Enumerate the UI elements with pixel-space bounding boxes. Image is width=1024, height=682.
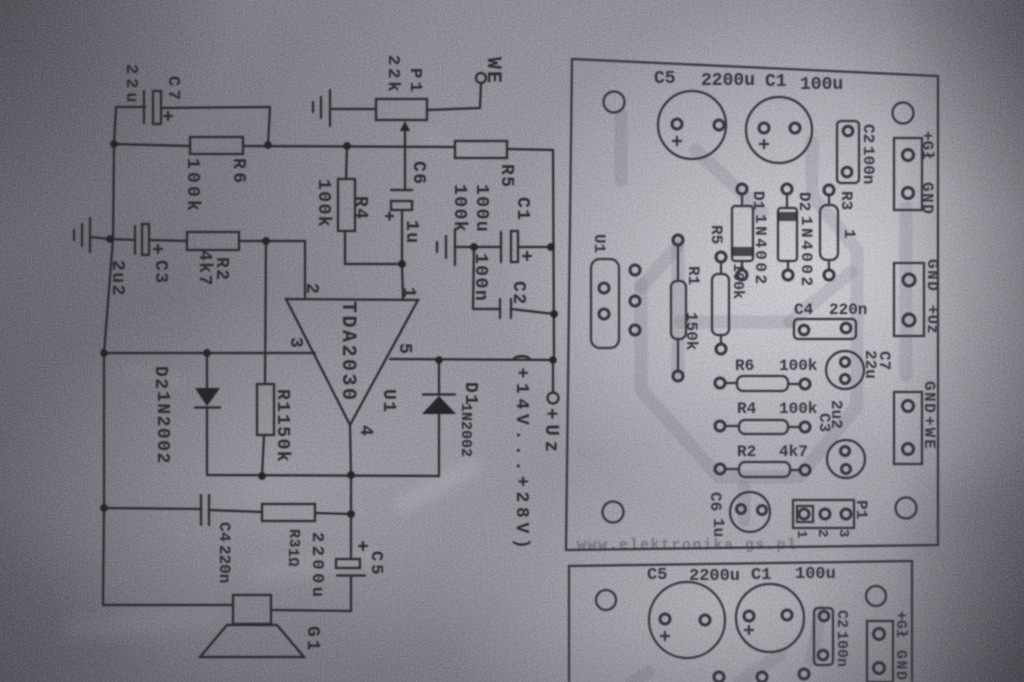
svg-text:100k: 100k	[313, 179, 333, 228]
svg-text:R5: R5	[496, 164, 516, 189]
svg-text:100k: 100k	[779, 357, 818, 375]
wire output to C5	[350, 475, 352, 559]
capacitor C2	[500, 299, 511, 318]
wire D2 branch top	[206, 353, 208, 389]
svg-text:100u: 100u	[795, 565, 836, 584]
svg-text:C6: C6	[706, 492, 724, 511]
svg-text:R4: R4	[737, 400, 757, 418]
svg-text:C5: C5	[654, 69, 676, 89]
wire R3 to output node	[315, 513, 351, 514]
svg-text:C1: C1	[751, 566, 771, 585]
speaker G1	[233, 595, 271, 624]
R1 resistor pcb	[671, 281, 686, 339]
wire C3 to R2	[149, 240, 187, 241]
svg-text:2: 2	[301, 283, 321, 295]
svg-text:5: 5	[394, 343, 414, 355]
terminal block supply	[894, 263, 924, 336]
svg-text:R6: R6	[735, 357, 754, 375]
PCB2	[569, 561, 912, 682]
svg-text:3: 3	[835, 529, 851, 537]
capacitor C5	[336, 559, 360, 568]
svg-text:C5: C5	[366, 551, 385, 577]
svg-text:C3: C3	[815, 413, 833, 432]
capacitor C3	[134, 226, 136, 254]
ground on left rail	[74, 218, 90, 252]
svg-text:C4: C4	[794, 301, 814, 319]
svg-text:R1: R1	[272, 389, 292, 414]
svg-text:GND: GND	[892, 650, 909, 682]
PCB1	[566, 59, 941, 554]
svg-text:1N2002: 1N2002	[152, 391, 172, 465]
capacitor C6	[391, 189, 412, 191]
svg-text:220n: 220n	[215, 545, 233, 583]
PCB board outline	[566, 59, 938, 550]
svg-text:GND: GND	[918, 182, 936, 215]
copper trace pcb2 a	[632, 672, 648, 682]
resistor R3	[262, 504, 315, 521]
D2 diode pcb	[778, 208, 797, 261]
R4 resistor pcb	[739, 420, 788, 434]
svg-text:TDA2030: TDA2030	[336, 301, 359, 403]
junction dots	[110, 140, 118, 148]
R3 resistor pcb	[820, 205, 838, 260]
copper trace to C4	[790, 272, 851, 322]
terminal block output	[894, 138, 922, 210]
D1 diode pcb	[732, 206, 753, 261]
potentiometer P1	[376, 99, 427, 120]
svg-text:4: 4	[355, 425, 375, 437]
svg-text:4k7: 4k7	[194, 250, 214, 287]
svg-text:R3: R3	[285, 529, 302, 548]
svg-text:GND: GND	[920, 381, 938, 414]
terminal block input	[894, 392, 922, 464]
wire bias node horizontal	[114, 144, 455, 147]
svg-text:C3: C3	[150, 260, 170, 285]
wire R4 top	[346, 146, 347, 179]
svg-text:C1: C1	[512, 197, 532, 222]
svg-text:(+14V...+28V): (+14V...+28V)	[511, 352, 531, 554]
svg-text:C6: C6	[408, 161, 428, 186]
svg-text:G1: G1	[302, 626, 322, 654]
node +Uz terminal	[548, 393, 559, 404]
svg-text:C2: C2	[833, 610, 850, 628]
resistor R2	[187, 232, 239, 250]
C2 capacitor pcb2	[814, 608, 833, 665]
R6 resistor pcb	[737, 376, 788, 391]
svg-text:R5: R5	[707, 225, 725, 244]
svg-text:150k: 150k	[682, 312, 700, 351]
wire pin5	[390, 359, 553, 360]
wire C6 to pin1	[402, 210, 403, 300]
wire C1 to rail	[518, 246, 551, 248]
wire R1 bottom	[262, 435, 264, 476]
copper trace diagonal	[641, 247, 677, 287]
capacitor C4	[201, 495, 209, 525]
wire output pin4	[350, 425, 351, 475]
node WE terminal	[476, 73, 486, 83]
C1 capacitor body	[746, 97, 812, 163]
svg-text:2200u: 2200u	[307, 532, 326, 601]
wire C2 branch	[473, 247, 500, 309]
wire pin2 node to R1	[265, 241, 266, 384]
svg-text:22k: 22k	[383, 55, 402, 95]
svg-text:22u: 22u	[121, 64, 140, 107]
C2 capacitor	[837, 121, 859, 183]
wire D2 to output	[207, 408, 439, 476]
mounting hole left	[596, 590, 616, 610]
svg-text:1N4002: 1N4002	[797, 216, 815, 289]
copper trace to C6	[738, 487, 751, 520]
svg-text:+Uz: +Uz	[540, 408, 562, 457]
svg-text:U1: U1	[590, 234, 608, 253]
wire left ground rail	[103, 107, 233, 605]
copper trace left vertical	[615, 115, 628, 180]
mounting hole top-right	[893, 103, 914, 124]
svg-text:100k: 100k	[449, 184, 469, 233]
svg-text:1u: 1u	[401, 220, 421, 245]
resistor R4	[338, 179, 355, 231]
mounting hole top-left	[604, 92, 625, 113]
C7 capacitor pcb	[826, 351, 864, 389]
svg-text:www.elektronika.gs.pl: www.elektronika.gs.pl	[577, 537, 798, 554]
wire ground to C1	[455, 246, 501, 248]
ground near P1	[313, 90, 330, 126]
wire P1 left to ground	[330, 108, 376, 110]
svg-text:C2: C2	[859, 124, 877, 143]
svg-text:1u: 1u	[709, 518, 727, 537]
wire R5 to supply rail	[507, 149, 554, 360]
resistor R1	[257, 384, 274, 435]
svg-text:1: 1	[398, 287, 418, 299]
wire P1 right to WE terminal	[427, 84, 481, 110]
svg-text:1: 1	[840, 229, 858, 239]
mounting hole bottom-left	[603, 502, 624, 523]
C5 capacitor body pcb2	[649, 582, 725, 658]
wire C2 to rail	[511, 309, 554, 314]
copper trace mid horizontal	[680, 316, 790, 329]
svg-text:100u: 100u	[471, 184, 491, 233]
wire C5 to speaker	[271, 576, 351, 611]
wire pin3 ground	[104, 352, 315, 354]
svg-text:+Uz: +Uz	[923, 305, 941, 334]
wire wiper to C6	[404, 142, 406, 190]
svg-text:2200u: 2200u	[701, 71, 755, 91]
svg-text:+Gł: +Gł	[892, 611, 909, 638]
wire C3 left	[110, 239, 135, 240]
wire C7 right to bias node	[161, 107, 270, 145]
copper trace right vertical	[900, 208, 913, 375]
svg-text:+WE: +WE	[920, 416, 938, 451]
svg-text:R6: R6	[228, 158, 248, 187]
svg-text:WE: WE	[481, 57, 504, 85]
C4 capacitor pcb	[794, 319, 856, 339]
svg-text:R4: R4	[350, 196, 370, 221]
C1 capacitor body pcb2	[736, 584, 804, 652]
svg-text:2u2: 2u2	[107, 260, 127, 297]
svg-text:R3: R3	[837, 191, 855, 210]
R2 resistor pcb	[739, 462, 790, 477]
bottom pads pcb2	[714, 672, 724, 682]
wire R2 to pin2	[239, 241, 305, 299]
PCB2 board outline	[569, 561, 912, 682]
svg-text:GND: GND	[923, 259, 941, 292]
svg-text:D2: D2	[150, 366, 170, 391]
wire C4 to R3	[209, 510, 262, 512]
copper trace pcb2 c	[812, 612, 820, 660]
wire Zobel C4	[104, 508, 201, 509]
svg-text:100n: 100n	[833, 631, 850, 667]
C3 capacitor pcb	[827, 440, 865, 478]
svg-text:C5: C5	[647, 566, 667, 585]
mounting hole bottom-right	[896, 498, 917, 519]
svg-text:C7: C7	[875, 351, 893, 370]
svg-text:3: 3	[285, 337, 305, 349]
svg-text:100u: 100u	[800, 75, 843, 95]
svg-text:100n: 100n	[859, 146, 877, 184]
svg-text:C7: C7	[163, 76, 182, 103]
ground near C1	[437, 229, 455, 265]
resistor R6	[190, 137, 243, 154]
svg-text:220n: 220n	[829, 301, 867, 319]
copper trace R1 column	[672, 243, 685, 372]
terminal block pcb2	[867, 621, 893, 682]
svg-text:2: 2	[814, 529, 830, 537]
R5 resistor pcb	[712, 274, 729, 335]
svg-text:4k7: 4k7	[779, 443, 808, 461]
svg-text:C4: C4	[215, 522, 233, 542]
resistor R5	[455, 141, 507, 158]
copper trace top diagonal	[696, 150, 762, 212]
U1 package	[591, 259, 619, 348]
svg-text:D2: D2	[795, 192, 813, 211]
wire +Uz terminal	[552, 360, 554, 392]
svg-text:D1: D1	[749, 191, 767, 210]
svg-text:100k: 100k	[182, 158, 202, 214]
C5 capacitor body	[658, 91, 726, 159]
svg-text:C1: C1	[765, 72, 787, 92]
wire D1 branch	[438, 360, 440, 476]
svg-text:R2: R2	[737, 443, 756, 461]
wire R4 bottom to pin1 node	[345, 231, 402, 264]
diode D2	[195, 388, 220, 406]
svg-text:100k: 100k	[779, 400, 818, 418]
C6 capacitor pcb	[730, 492, 770, 532]
diode D1	[422, 396, 456, 414]
svg-text:R1: R1	[684, 266, 702, 285]
P1 connector pcb	[793, 500, 854, 528]
svg-text:P1: P1	[405, 68, 424, 95]
op-amp U1 TDA2030	[286, 299, 418, 425]
svg-text:1Ω: 1Ω	[284, 548, 301, 567]
mounting hole right	[866, 586, 886, 606]
copper trace main loop	[641, 142, 857, 477]
capacitor C1	[500, 232, 502, 262]
svg-text:1N4002: 1N4002	[751, 214, 769, 287]
svg-text:C2: C2	[508, 281, 528, 306]
svg-text:2200u: 2200u	[689, 567, 740, 586]
svg-text:+Gł: +Gł	[918, 131, 936, 160]
svg-text:100n: 100n	[470, 253, 490, 302]
svg-text:1N2002: 1N2002	[457, 403, 474, 457]
copper trace pcb2 b	[740, 655, 780, 682]
wire ground to rail	[90, 237, 110, 239]
svg-text:150k: 150k	[272, 414, 292, 463]
svg-text:P1: P1	[852, 500, 870, 519]
svg-text:U1: U1	[378, 389, 398, 414]
capacitor C7	[143, 91, 145, 123]
